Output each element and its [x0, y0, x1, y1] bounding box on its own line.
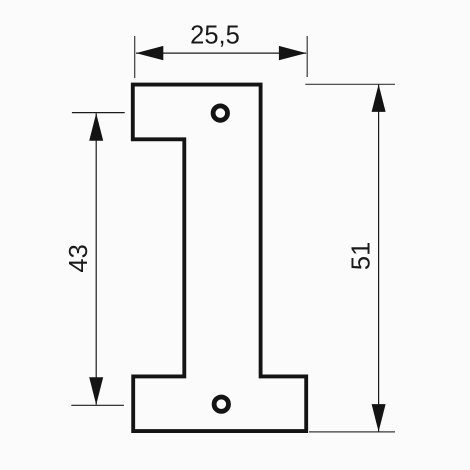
screw hole top	[213, 106, 227, 120]
digit 1 plate outline	[133, 85, 306, 432]
svg-text:43: 43	[65, 244, 93, 272]
hole distance dimension line	[95, 113, 97, 405]
width dimension right arrowhead	[279, 46, 306, 60]
height dimension line	[378, 84, 380, 431]
screw hole bottom	[214, 397, 228, 411]
hole distance dimension top tick	[72, 112, 125, 114]
width dimension left arrowhead	[136, 46, 163, 60]
svg-text:25,5: 25,5	[190, 22, 240, 50]
height dimension top extension line	[305, 83, 395, 85]
extension line right of width dimension	[306, 36, 308, 77]
height dimension bottom arrowhead	[372, 404, 386, 432]
width dimension line	[136, 52, 306, 54]
hole distance bottom arrowhead	[89, 377, 103, 405]
hole distance top arrowhead	[89, 113, 103, 141]
extension line left of width dimension	[134, 36, 136, 78]
height dimension bottom extension line	[309, 431, 395, 433]
height dimension top arrowhead	[372, 84, 386, 112]
hole distance dimension bottom tick	[71, 404, 124, 406]
svg-text:51: 51	[348, 242, 376, 270]
